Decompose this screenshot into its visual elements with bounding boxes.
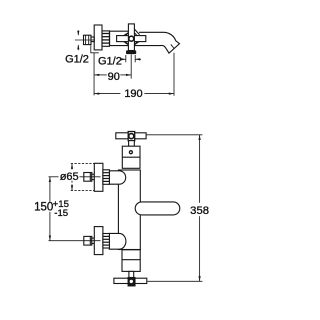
svg-text:90: 90 <box>108 71 120 83</box>
svg-text:G1/2: G1/2 <box>65 53 89 65</box>
svg-text:G1/2: G1/2 <box>98 56 122 68</box>
svg-text:-15: -15 <box>54 208 68 219</box>
svg-text:ø65: ø65 <box>60 171 79 183</box>
svg-text:150: 150 <box>34 201 53 213</box>
svg-text:358: 358 <box>190 205 209 217</box>
svg-text:190: 190 <box>124 88 142 100</box>
